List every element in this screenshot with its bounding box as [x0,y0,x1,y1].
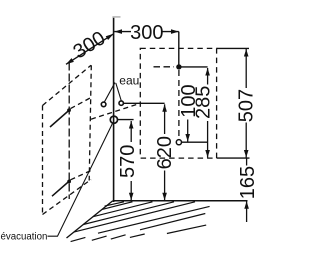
left wall upper point hidden line (dashed) [71,98,92,109]
left wall lower point pointer line [52,180,71,196]
dim 300 rotated: lower-left arrow [66,58,74,64]
dim 300 rotated: upper-right arrow [106,34,114,40]
top extension line for 507 [217,47,249,49]
floor hatching [71,202,210,242]
eau leader to left circle [104,83,115,103]
left wall panel right edge (dashed) [89,65,91,180]
svg-text:507: 507 [236,89,258,122]
dim 100 line [187,120,189,142]
reference line at water dot level [179,66,208,68]
left wall lower point dot [67,180,71,184]
left wall lower point hidden line (dashed) [71,171,92,180]
eau left circle [101,102,106,107]
dim 300 horizontal: left arrow [114,29,122,34]
svg-text:eau: eau [119,74,139,88]
lower connection circle on right wall [176,140,181,145]
eau leader to right circle [116,83,122,101]
hidden drop below water dot (dashed) [178,70,180,140]
corner wall edge vertical line [113,16,115,202]
bottom extension line at 158 [217,157,250,159]
reference line at eau circles level [123,102,164,104]
dim 507 line [245,49,247,88]
left wall panel left edge (dashed) [42,106,44,215]
left wall panel bottom edge (dashed) [43,180,92,215]
evacuation big circle on corner [110,116,117,123]
svg-text:300: 300 [130,22,163,44]
reference line at big circle level [118,119,134,121]
dim 620 line [164,104,166,134]
evacuation leader line [48,124,113,237]
floor left edge [67,201,113,238]
dim 165 line [246,158,248,165]
eau right circle [119,101,123,105]
gray tick at top of corner line [113,16,121,18]
dim 300 horizontal: right arrow [171,29,179,34]
svg-text:165: 165 [237,166,259,199]
water supply drop from 300 dim [178,32,180,67]
left wall upper point pointer line [50,109,71,127]
left wall supply drop line (dashed vertical) [68,63,70,200]
dim 300 horizontal: line segments [114,31,131,33]
dashed stub left of water dot [154,66,175,68]
left wall upper point dot [67,108,71,112]
hidden pipe line around corner (dashed diagonal) [91,104,138,119]
reference line at lower circle level [182,141,208,143]
water supply dot on right wall [176,64,181,69]
svg-text:285: 285 [193,86,215,119]
svg-text:570: 570 [117,145,139,178]
floor top edge [113,200,248,202]
dim 285 line [207,68,209,85]
right wall panel dashed rectangle [140,48,216,158]
svg-text:620: 620 [154,136,176,169]
svg-text:évacuation: évacuation [1,231,48,242]
dim 300 rotated: line [66,34,114,65]
dim 570 line [130,121,132,142]
left wall panel top edge (dashed) [43,65,92,105]
